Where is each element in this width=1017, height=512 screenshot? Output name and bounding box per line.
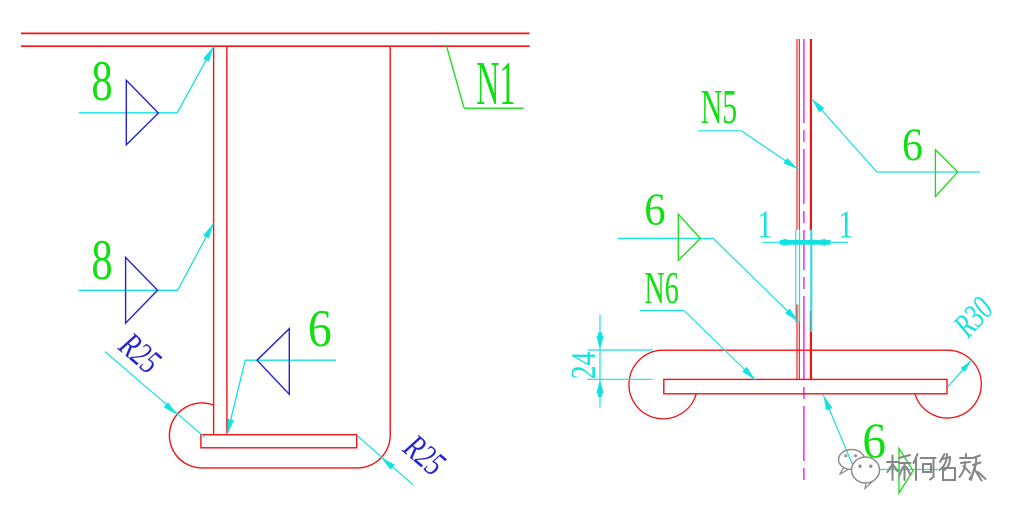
radius R25 left arrowhead <box>164 402 178 415</box>
svg-text:8: 8 <box>91 49 112 112</box>
label N6 arrowhead <box>742 367 755 380</box>
label N6 leader <box>684 311 756 381</box>
svg-text:1: 1 <box>838 202 853 245</box>
radius R25 left text <box>111 325 168 382</box>
web plate left line <box>213 46 215 435</box>
dim 24 extension line top <box>587 349 652 351</box>
watermark big bubble eyes <box>858 465 861 468</box>
radius R25 right leader line <box>357 435 413 484</box>
weld leader right 6 arrowhead <box>812 99 825 113</box>
watermark small bubble tail <box>840 468 849 475</box>
flange right R30 bulb arc <box>915 350 981 418</box>
weld size 8 text (top) <box>91 49 112 112</box>
dim text 1 right <box>838 202 853 245</box>
radius R30 text <box>946 290 1000 345</box>
bottom flange plate rectangle <box>201 435 357 448</box>
dim 1-1 arrow band <box>780 240 831 245</box>
dim text 1 left <box>757 202 772 245</box>
deck plate bottom line <box>21 45 530 47</box>
weld leader 1 line <box>79 47 214 113</box>
weld size 6 text (bottom) <box>862 413 886 469</box>
weld leader 3 arrowhead <box>227 419 234 435</box>
magenta centerline dash-dot <box>803 39 805 484</box>
weld leader 1 arrowhead <box>203 47 213 62</box>
rib web right face upper segment <box>810 39 812 231</box>
dim 24 bottom outside arrow <box>596 379 603 393</box>
weld size 8 text (second) <box>91 228 112 291</box>
weld leader left 6 arrowhead <box>785 309 798 322</box>
radius R25 right arrowhead <box>381 457 395 470</box>
watermark character 4: kai <box>960 454 986 481</box>
rib web right face lower segment <box>810 311 812 379</box>
weld leader 2 arrowhead <box>203 223 213 238</box>
dim 24 top arrow stub <box>598 333 602 338</box>
web plate right line <box>226 46 228 435</box>
label N6 text <box>644 263 678 314</box>
dim 24 dimension line <box>599 315 601 408</box>
flange left R30 bulb arc <box>629 350 696 419</box>
weld size 6 text (upper-left of right detail) <box>644 186 665 235</box>
label N1 text <box>476 47 515 118</box>
dim 1-1 extension line b <box>799 230 801 323</box>
weld size 6 text (right) <box>902 118 923 171</box>
watermark small chat bubble <box>839 450 865 470</box>
fillet weld triangle symbol 1 <box>126 80 158 145</box>
rib web left face lower segment <box>796 305 798 380</box>
watermark character 3: ming <box>940 454 956 480</box>
watermark big chat bubble <box>852 457 880 483</box>
weld leader 2 line <box>79 223 214 290</box>
left R25 wrap-around arc <box>169 403 214 468</box>
label N5 leader <box>741 131 798 170</box>
dim 1-1 extension line a <box>795 230 797 323</box>
label N5 underline <box>698 130 741 132</box>
fillet weld triangle symbol bottom (green) <box>899 448 913 493</box>
dim 1-1 right arrow <box>812 239 826 246</box>
svg-text:6: 6 <box>644 186 665 235</box>
watermark small bubble eyes <box>844 454 847 457</box>
dim 1-1 dimension line <box>763 241 848 243</box>
svg-text:6: 6 <box>902 118 923 171</box>
flange top line <box>663 349 947 351</box>
fillet weld triangle symbol right (green) <box>935 150 957 197</box>
radius R30 arrowhead <box>961 360 972 372</box>
fillet weld triangle symbol 2 <box>126 257 158 323</box>
label N1 underline <box>464 107 524 109</box>
svg-text:8: 8 <box>91 228 112 291</box>
weld leader bottom 6 line <box>823 395 938 470</box>
weld leader left 6 line <box>618 238 799 321</box>
radius R25 left leader line <box>105 352 205 438</box>
dim 24 text rotated <box>564 351 603 379</box>
dim 1-1 left arrow <box>783 239 797 246</box>
rib web left inner line lower segment <box>798 305 800 380</box>
right contour vertical with R25 fillet <box>202 46 391 468</box>
dim 1-1 extension line c <box>810 230 812 333</box>
rib web left inner line upper segment <box>798 39 800 230</box>
label N1 leader diagonal <box>447 46 464 108</box>
bottom plate rectangle <box>664 379 947 393</box>
watermark big bubble tail <box>865 482 873 489</box>
fillet weld triangle symbol left (green) <box>678 214 700 260</box>
svg-text:6: 6 <box>308 299 332 358</box>
dim 24 extension line bottom <box>587 378 652 380</box>
svg-text:N1: N1 <box>476 47 515 118</box>
label N5 text <box>701 79 737 133</box>
svg-text:N6: N6 <box>644 263 678 314</box>
radius R25 right text <box>396 427 453 484</box>
weld leader right 6 line <box>812 99 980 172</box>
label N5 arrowhead <box>784 158 799 169</box>
dim 24 top outside arrow <box>596 336 603 350</box>
weld leader bottom 6 arrowhead <box>823 395 832 411</box>
weld leader 3 line <box>227 360 336 434</box>
svg-text:N5: N5 <box>701 79 737 133</box>
watermark character 1: qiao <box>887 455 911 480</box>
radius R30 leader line <box>948 360 972 386</box>
rib web left face upper segment <box>796 39 798 230</box>
fillet weld triangle symbol 3 pointing left <box>257 329 289 395</box>
svg-text:24: 24 <box>564 351 603 379</box>
weld size 6 text (left detail) <box>308 299 332 358</box>
svg-text:1: 1 <box>757 202 772 245</box>
label N6 underline <box>640 310 684 312</box>
deck plate top line <box>21 32 530 34</box>
watermark character 2: he <box>914 454 936 480</box>
dim 24 bottom arrow stub <box>598 392 602 397</box>
